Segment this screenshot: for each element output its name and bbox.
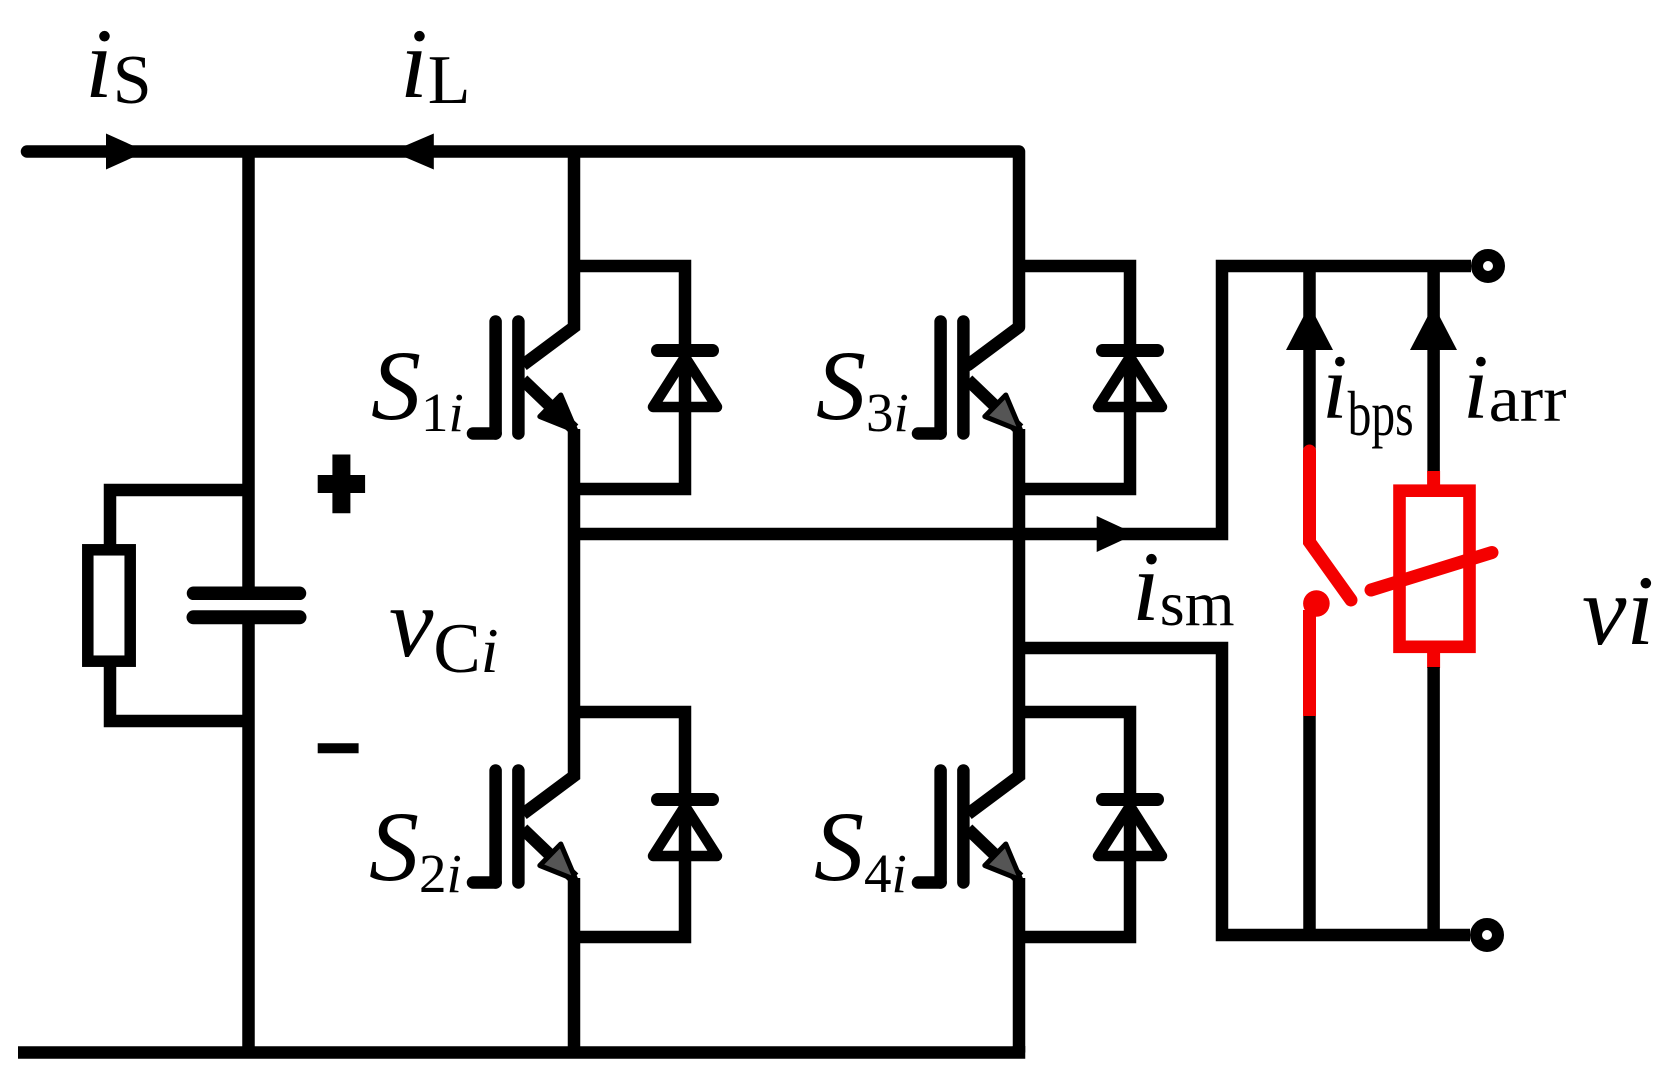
svg-text:ibps: ibps bbox=[1322, 336, 1414, 449]
svg-text:iarr: iarr bbox=[1463, 336, 1567, 438]
wire: arrester branch lower black segment bbox=[1427, 667, 1440, 935]
node: arrow iL on top bus bbox=[392, 134, 434, 170]
resistor R (discharge) body bbox=[88, 550, 130, 661]
wire: left leg middle (S1 emitter to S2 collector, mid node A) bbox=[523, 429, 574, 814]
diode D2 cathode bar bbox=[658, 793, 713, 806]
svg-text:iL: iL bbox=[400, 8, 471, 119]
diode D1 triangle bbox=[653, 357, 717, 407]
wire: right leg lower (S4 emitter to bottom bus) bbox=[1013, 878, 1026, 1053]
transistor S3i body bbox=[918, 322, 1021, 434]
wire: left vertical from top bus down to capacitor top plate bbox=[242, 152, 255, 594]
capacitor Ci bottom plate bbox=[194, 610, 300, 624]
svg-text:iS: iS bbox=[85, 8, 152, 119]
wire: D3 loop top stub bbox=[1019, 266, 1130, 489]
wire: left vertical from capacitor bottom plate to bottom bus bbox=[242, 617, 255, 1053]
node: arrow ibps (up) bbox=[1286, 305, 1333, 350]
wire: bypass branch lower black segment bbox=[1303, 716, 1316, 935]
wire: D2 loop top stub bbox=[574, 712, 685, 937]
node: arrow iS on top bus bbox=[106, 134, 146, 170]
capacitor Ci top plate bbox=[194, 587, 300, 601]
wire: D4 loop top stub bbox=[1019, 712, 1130, 937]
wire: bottom bus bbox=[18, 1046, 1019, 1053]
transistor S2i body bbox=[473, 771, 576, 883]
node: arrow iarr (up) bbox=[1410, 305, 1457, 350]
svg-text:S1i: S1i bbox=[371, 330, 464, 443]
wire: resistor loop bottom stub bbox=[110, 662, 249, 721]
node: plus polarity mark bbox=[318, 455, 365, 514]
switch bypass lower red lead bbox=[1303, 610, 1316, 716]
arrester upper red stub bbox=[1427, 471, 1440, 492]
svg-text:S2i: S2i bbox=[369, 791, 462, 904]
svg-text:vi: vi bbox=[1582, 555, 1654, 666]
diode D3 cathode bar bbox=[1103, 344, 1158, 357]
transistor S4i body bbox=[918, 771, 1021, 883]
wire: bypass branch upper black segment bbox=[1303, 266, 1316, 451]
switch bypass upper red lead and blade bbox=[1310, 451, 1352, 600]
node: lower output terminal bbox=[1476, 924, 1498, 946]
svg-text:ism: ism bbox=[1132, 531, 1234, 642]
diode D2 triangle bbox=[653, 806, 717, 856]
wire: arrester branch upper black segment bbox=[1427, 266, 1440, 472]
wire: mid node B to lower terminal riser bbox=[1019, 648, 1470, 935]
diode D1 cathode bar bbox=[658, 344, 713, 357]
diode D3 triangle bbox=[1098, 357, 1162, 407]
wire: left leg lower (S2 emitter to bottom bus) bbox=[568, 878, 581, 1053]
svg-text:S3i: S3i bbox=[816, 330, 909, 443]
svg-text:vCi: vCi bbox=[389, 567, 499, 688]
diode D4 triangle bbox=[1098, 806, 1162, 856]
arrester body (varistor box) bbox=[1400, 491, 1470, 647]
transistor S1i body bbox=[473, 322, 576, 434]
switch bypass contact dot bbox=[1303, 590, 1330, 617]
node: minus polarity mark bbox=[318, 743, 359, 753]
wire: D1 loop top stub bbox=[574, 266, 685, 489]
wire: top bus from iS input to right leg top bbox=[27, 152, 1019, 366]
wire: resistor loop top stub bbox=[110, 490, 249, 549]
wire: left leg upper (top bus to S1 collector) bbox=[523, 152, 574, 366]
node: arrow ism on output wire bbox=[1097, 516, 1136, 552]
arrester lower red stub bbox=[1427, 652, 1440, 668]
svg-text:S4i: S4i bbox=[814, 791, 907, 904]
wire: right leg middle (S3 emitter to S4 collector, mid node B) bbox=[968, 429, 1019, 814]
wire: mid node A output to upper terminal riser bbox=[574, 266, 1471, 534]
diode D4 cathode bar bbox=[1103, 793, 1158, 806]
node: upper output terminal bbox=[1477, 255, 1499, 277]
arrester varistor diagonal bbox=[1371, 553, 1492, 591]
